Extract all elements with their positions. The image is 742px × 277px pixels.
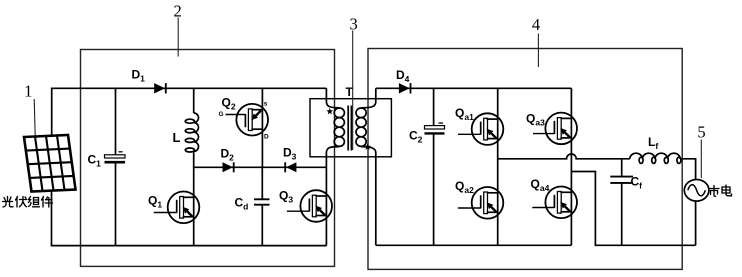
svg-text:Q3: Q3: [279, 189, 293, 205]
output wire with crossover hop: [498, 154, 630, 159]
svg-text:2: 2: [173, 1, 181, 20]
svg-text:C2: C2: [409, 129, 423, 145]
svg-text:Lf: Lf: [648, 135, 658, 151]
right bridge leg wire: [570, 88, 572, 245]
diode D4: [399, 83, 410, 93]
inductor L wire: [193, 88, 195, 113]
svg-text:Q2: Q2: [222, 96, 236, 112]
svg-text:Qa4: Qa4: [531, 177, 550, 193]
wire diode row D2 D3: [194, 166, 327, 168]
svg-text:Qa1: Qa1: [455, 106, 474, 122]
svg-text:Cf: Cf: [631, 175, 643, 191]
svg-text:L: L: [173, 130, 181, 145]
MOSFET Qa2: [472, 187, 504, 219]
label 市电 (grid) drawn strokes: [710, 185, 732, 196]
diode D1: [154, 83, 165, 93]
label 4 pointer line: [537, 34, 539, 68]
svg-text:T: T: [346, 85, 354, 99]
capacitor C1 wire: [115, 88, 117, 155]
transformer T secondary winding: [356, 88, 376, 245]
label 3 pointer line: [352, 31, 354, 151]
MOSFET Qa4: [545, 187, 577, 219]
svg-text:C1: C1: [88, 153, 102, 169]
PV module text 光伏组件: [3, 197, 53, 208]
MOSFET Q2: [261, 88, 263, 167]
svg-text:Q1: Q1: [148, 194, 162, 210]
svg-text:1: 1: [24, 82, 32, 101]
wire PV top lead: [51, 88, 53, 135]
transformer core: [347, 106, 349, 151]
label 5 pointer line: [700, 140, 702, 179]
diode D3: [286, 162, 296, 172]
svg-text:D4: D4: [396, 68, 410, 84]
label 1 pointer line: [34, 99, 35, 136]
diode D2: [223, 162, 233, 172]
svg-text:Qa3: Qa3: [526, 112, 545, 128]
wire bottom rail stage 2: [51, 245, 327, 247]
wire top rail stage 2: [51, 87, 327, 89]
svg-text:D2: D2: [221, 147, 235, 163]
svg-text:D: D: [264, 134, 269, 141]
capacitor Cd: [261, 167, 263, 199]
stage 4 box (inverter): [368, 49, 682, 270]
stage 3 box (transformer): [310, 99, 391, 157]
inductor L coil: [185, 113, 198, 152]
left bridge leg wire: [497, 88, 499, 245]
inductor Lf coil: [630, 153, 681, 163]
svg-text:D3: D3: [283, 146, 297, 162]
svg-text:G: G: [219, 111, 224, 118]
MOSFET Q1: [193, 167, 195, 245]
solar panel (PV module): [24, 135, 76, 192]
svg-text:s: s: [264, 101, 268, 108]
AC source (grid): [684, 180, 709, 202]
MOSFET Q3: [325, 167, 327, 245]
MOSFET Qa3: [545, 113, 577, 145]
wire top rail stage 4: [376, 87, 572, 89]
capacitor Cf: [621, 159, 623, 176]
MOSFET Qa1: [472, 113, 504, 145]
stage 2 box (boost converter): [81, 50, 335, 267]
svg-text:D1: D1: [132, 68, 146, 84]
return jog wire: [571, 172, 695, 246]
secondary polarity star: [364, 143, 371, 150]
transformer T primary winding: [326, 88, 344, 167]
svg-text:3: 3: [349, 15, 357, 34]
capacitor C2 (electrolytic): [425, 126, 445, 129]
wire PV bottom lead: [51, 190, 53, 245]
svg-text:Cd: Cd: [235, 196, 249, 212]
svg-text:Qa2: Qa2: [455, 179, 474, 195]
wire bottom rail stage 4: [376, 244, 572, 246]
primary polarity star: [326, 108, 333, 115]
svg-text:4: 4: [532, 15, 540, 34]
label 2 pointer line: [177, 18, 179, 57]
capacitor C1 (electrolytic): [105, 155, 126, 158]
svg-text:5: 5: [697, 123, 705, 142]
capacitor C2 wire: [433, 88, 435, 125]
